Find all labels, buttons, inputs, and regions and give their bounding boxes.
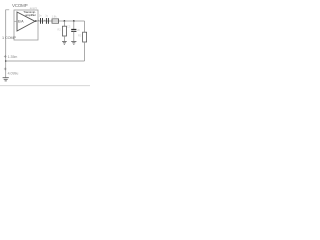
wire down to R2 — [63, 21, 65, 26]
probe tick 1 — [4, 55, 7, 58]
wire stub at VCOMP label — [5, 9, 9, 11]
svg-text:1 COMP: 1 COMP — [2, 36, 17, 40]
wire bottom rail — [6, 60, 85, 62]
svg-text:E/A: E/A — [18, 19, 24, 23]
svg-text:1.35m: 1.35m — [8, 55, 18, 59]
wire C3 to ground — [73, 31, 75, 41]
op-amp block U1 box — [14, 10, 38, 40]
svg-text:10n: 10n — [37, 14, 42, 18]
node output junction dot — [35, 20, 37, 22]
svg-text:C3: C3 — [67, 24, 71, 28]
resistor R3 vertical right — [83, 32, 87, 42]
node junction bottom left — [5, 60, 7, 62]
resistor R2 vertical — [63, 26, 67, 36]
polarity plus C2 — [44, 20, 46, 22]
ground under R2 — [62, 40, 67, 42]
capacitor C3 — [71, 28, 76, 30]
polarity plus C1 — [38, 20, 40, 22]
wire output rail — [36, 20, 85, 22]
node junction dot B — [73, 20, 75, 22]
op-amp U1 triangle — [17, 12, 35, 31]
wire COMP net left vertical — [5, 10, 7, 78]
capacitor C2 — [45, 18, 47, 24]
svg-text:R2: R2 — [57, 27, 61, 31]
wire input stub — [14, 20, 17, 22]
wire down to C3 — [73, 21, 75, 29]
svg-text:1.8k: 1.8k — [52, 14, 58, 18]
resistor R1 horizontal — [52, 19, 59, 23]
separator line bottom — [0, 85, 90, 87]
svg-text:R3: R3 — [78, 33, 82, 37]
capacitor C1 — [40, 18, 42, 24]
svg-text:4.099u: 4.099u — [8, 72, 19, 76]
svg-text:VCOMP: VCOMP — [12, 3, 28, 8]
svg-text:amplifier: amplifier — [25, 13, 36, 17]
ground bottom left — [3, 77, 9, 79]
probe tick 2 — [4, 68, 7, 71]
wire R3 down — [84, 42, 86, 61]
wire right branch down — [84, 21, 86, 32]
ground under C3 — [71, 40, 76, 42]
wire R2 to ground — [63, 36, 65, 41]
node junction dot A — [64, 20, 66, 22]
